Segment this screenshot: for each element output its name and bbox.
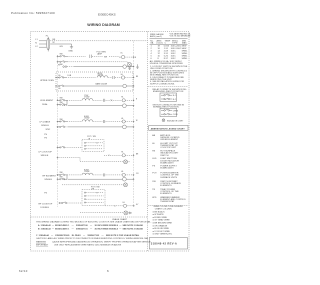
label RF element bbox=[43, 176, 57, 182]
svg-text:2. WIRING SHOWN WITH CONTROLSI: 2. WIRING SHOWN WITH CONTROLSIN OFF POSI… bbox=[150, 70, 187, 76]
svg-text:WIRING DIAGRAM: WIRING DIAGRAM bbox=[87, 23, 120, 27]
svg-text:A 318048-42 — EI30EC45KS 1: A 318048-42 — EI30EC45KS 1 — 5995627100 … bbox=[38, 224, 143, 227]
notes model list row C bbox=[36, 234, 140, 237]
svg-text:USAGE CHART: USAGE CHART bbox=[112, 218, 128, 221]
svg-text:USE ONLY REPLACEMENT WIRE RATE: USE ONLY REPLACEMENT WIRE RATED 105C MIN… bbox=[54, 243, 122, 246]
convection fan row symbols bbox=[58, 64, 74, 67]
wire right bus bbox=[133, 41, 135, 207]
svg-text:HL: HL bbox=[152, 143, 156, 145]
svg-text:R: R bbox=[136, 99, 138, 101]
notes heading bbox=[112, 218, 128, 221]
node LF lower feed bbox=[57, 157, 58, 158]
node RF cooktop bus bbox=[133, 205, 134, 206]
upper oven enclosure bbox=[56, 72, 134, 91]
node row C branch bus bbox=[133, 126, 134, 127]
svg-text:LF COOKTOPSINGLE: LF COOKTOPSINGLE bbox=[39, 151, 53, 156]
broil element coil bbox=[68, 73, 122, 79]
diagram border bbox=[31, 32, 190, 252]
node row B bottom bbox=[57, 104, 58, 105]
LF cooktop hi-limit TH4 bbox=[121, 152, 133, 157]
node bake bus bbox=[133, 85, 134, 86]
svg-text:LF & BAKESINGLE: LF & BAKESINGLE bbox=[40, 120, 51, 127]
relay contact symbol note bbox=[153, 88, 187, 93]
label LF and bake bbox=[40, 120, 51, 127]
svg-text:HI-LIMIT CUTOUTTHERMOSTAT OFCO: HI-LIMIT CUTOUTTHERMOSTAT OFCOOKTOP UNIT bbox=[160, 143, 178, 149]
svg-text:HL: HL bbox=[121, 118, 123, 120]
LR switch contacts bbox=[58, 98, 68, 106]
door switch S2 bbox=[58, 61, 68, 66]
svg-text:SW: SW bbox=[60, 54, 63, 56]
svg-text:N: N bbox=[135, 57, 137, 59]
wire left bus bbox=[57, 56, 59, 207]
node row A top bbox=[57, 56, 58, 57]
svg-text:SW: SW bbox=[60, 98, 63, 100]
svg-text:SWITCH ROTARYCONTROL SURFACEEL: SWITCH ROTARYCONTROL SURFACEELEMENTS bbox=[160, 180, 181, 187]
svg-text:CAUSE IMPROPER AND DANGEROUS O: CAUSE IMPROPER AND DANGEROUS OPERATION. … bbox=[52, 240, 151, 243]
svg-text:AB: AB bbox=[152, 134, 155, 137]
svg-text:HL: HL bbox=[121, 171, 123, 173]
svg-text:PS: PS bbox=[44, 192, 47, 194]
svg-text:BK: BK bbox=[136, 76, 139, 78]
svg-text:BK: BK bbox=[53, 39, 56, 41]
svg-text:HL: HL bbox=[123, 202, 125, 204]
svg-text:6: 6 bbox=[107, 269, 109, 273]
svg-text:OL: OL bbox=[120, 53, 123, 55]
svg-text:TRIAC POWERCONTROL OF THEELEME: TRIAC POWERCONTROL OF THEELEMENTS bbox=[160, 188, 179, 195]
chassis ground G3 bbox=[128, 212, 131, 215]
svg-text:WARNING: WARNING bbox=[36, 240, 46, 243]
RF element coil bbox=[67, 170, 122, 177]
svg-text:IMPORTANT: IMPORTANT bbox=[36, 243, 49, 246]
wire row D branch bbox=[62, 178, 123, 180]
svg-text:SW: SW bbox=[60, 119, 63, 121]
wire pot RF output bbox=[105, 205, 123, 206]
svg-text:ELEM1300W: ELEM1300W bbox=[84, 116, 90, 120]
svg-text:POWER SUPPLYBOARD ASSY: POWER SUPPLYBOARD ASSY bbox=[160, 166, 177, 170]
legend separator dashed bbox=[148, 86, 188, 88]
LF feed contacts bbox=[58, 146, 83, 148]
svg-text:W: W bbox=[53, 42, 55, 44]
node row C bus bbox=[133, 121, 134, 122]
svg-text:OPEN: OPEN bbox=[173, 110, 179, 112]
LF element coil bbox=[67, 116, 122, 123]
wire gauge table header bbox=[150, 33, 192, 39]
svg-text:P1: P1 bbox=[46, 35, 48, 37]
svg-text:318048-42 REV-A: 318048-42 REV-A bbox=[151, 241, 177, 245]
svg-text:AWG(mm2): AWG(mm2) bbox=[157, 39, 163, 44]
node row D top bbox=[57, 174, 58, 175]
svg-text:LR ELEMENTDUAL: LR ELEMENTDUAL bbox=[40, 100, 54, 106]
wire row B branch bbox=[62, 105, 123, 107]
svg-text:HOT SURFACEINDICATOR LIGHTSWIT: HOT SURFACEINDICATOR LIGHTSWITCH bbox=[160, 150, 179, 157]
abbreviation list bbox=[152, 134, 186, 203]
svg-text:POTENTIOMETERCONTROL OF THESUR: POTENTIOMETERCONTROL OF THESURFACE UNITS bbox=[160, 173, 179, 179]
oven light OL1 bbox=[119, 53, 137, 60]
svg-text:POT: POT bbox=[152, 173, 157, 175]
connector P12 J12 bbox=[90, 52, 119, 59]
svg-text:GY: GY bbox=[136, 204, 139, 206]
wire gauge table column headings bbox=[150, 39, 188, 45]
node row D bottom bbox=[57, 179, 58, 180]
wire L1 bus bbox=[50, 40, 147, 42]
switch symbol note bbox=[153, 103, 185, 108]
svg-text:BAKE 2500W: BAKE 2500W bbox=[96, 82, 108, 85]
hot surface indicator lamp DS3 bbox=[62, 183, 128, 187]
pot switch RF wipers bbox=[84, 192, 103, 203]
node row B top bbox=[57, 100, 58, 101]
svg-text:HL: HL bbox=[58, 88, 60, 90]
svg-text:THIS WIRING DIAGRAM COVERS TWO: THIS WIRING DIAGRAM COVERS TWO MODELS OF… bbox=[36, 221, 152, 224]
svg-text:1. LOCKOUT SWITCH SHOWN IN THE: 1. LOCKOUT SWITCH SHOWN IN THEUNLOCKED P… bbox=[150, 66, 188, 70]
abbreviation legend header box bbox=[149, 125, 188, 130]
node fan bus bbox=[133, 66, 134, 67]
svg-text:LIGHT EMITTINGDIODE INDICATORB: LIGHT EMITTINGDIODE INDICATORBOARD ASSY bbox=[160, 158, 179, 164]
wire color code list bbox=[153, 210, 173, 235]
notes caution paragraph bbox=[36, 237, 151, 246]
svg-text:INSULTYPE: INSULTYPE bbox=[172, 40, 179, 44]
svg-text:TR: TR bbox=[152, 189, 155, 191]
LR anti-boil sensor AB1 bbox=[123, 104, 134, 108]
svg-text:EI30EC45KS: EI30EC45KS bbox=[98, 12, 116, 16]
svg-text:ELEM1200W: ELEM1200W bbox=[84, 170, 90, 174]
svg-text:Publication No: 5995627100: Publication No: 5995627100 bbox=[11, 11, 55, 15]
legend column separator bbox=[147, 32, 149, 252]
svg-text:PSPS: PSPS bbox=[44, 134, 47, 139]
label LR element bbox=[40, 100, 54, 106]
svg-text:SW: SW bbox=[60, 172, 63, 174]
node row A bus bbox=[133, 57, 134, 58]
wire neutral run bbox=[50, 39, 71, 48]
svg-text:W: W bbox=[136, 120, 138, 122]
svg-text:LED: LED bbox=[152, 158, 157, 160]
hi-limit thermostat TH1 bbox=[121, 74, 134, 79]
notes model list bbox=[38, 224, 143, 231]
RF anti-boil sensor AB3 bbox=[123, 177, 134, 181]
wire color separator dashed bbox=[148, 204, 188, 206]
chassis ground G1 bbox=[68, 44, 73, 52]
svg-text:N.O.: N.O. bbox=[173, 95, 177, 97]
label LF cooktop bbox=[39, 151, 53, 156]
label pot sw LF bbox=[87, 136, 96, 140]
node row D branch bus bbox=[133, 179, 134, 180]
svg-text:0.8231.312.083.315.268.37: 0.8231.312.083.315.268.37 bbox=[164, 46, 170, 61]
power supply leads L1 N L2 bbox=[35, 39, 46, 48]
notes separator bbox=[31, 216, 148, 218]
node row B branch bus bbox=[133, 105, 134, 106]
svg-text:RELAY CONTACTS SHOWN IN DE-ENE: RELAY CONTACTS SHOWN IN DE-ENERGIZED (RE… bbox=[153, 88, 187, 93]
chassis ground G2 bbox=[128, 67, 131, 70]
svg-text:P12 OVENLAMP: P12 OVENLAMP bbox=[97, 52, 107, 56]
title WIRING DIAGRAM bbox=[87, 23, 120, 27]
svg-text:1700/2700W: 1700/2700W bbox=[84, 95, 90, 99]
svg-text:B 318048-43 — EI36EC45KS 1: B 318048-43 — EI36EC45KS 1 — 5995627101 … bbox=[38, 228, 143, 231]
svg-text:123456: 123456 bbox=[151, 46, 153, 61]
svg-text:W/D: W/D bbox=[152, 197, 157, 199]
svg-text:ABBREVIATION LEGEND CHART: ABBREVIATION LEGEND CHART bbox=[151, 128, 186, 131]
node row B bus bbox=[133, 100, 134, 101]
svg-text:SP02: SP02 bbox=[46, 129, 51, 131]
indicator lamp DS1 bbox=[128, 63, 132, 67]
label PS upper bbox=[44, 134, 47, 139]
bake element motor M2 bbox=[66, 82, 134, 87]
wire color code heading bbox=[154, 206, 184, 210]
svg-text:INDICATOR LIGHT: INDICATOR LIGHT bbox=[167, 119, 184, 122]
svg-text:HL: HL bbox=[121, 152, 123, 154]
svg-text:L2: L2 bbox=[35, 46, 38, 48]
footer date code bbox=[19, 269, 28, 273]
RF feed contacts bbox=[60, 202, 83, 204]
chassis ground G4 bbox=[136, 64, 139, 68]
LF hi-limit TH3 bbox=[121, 118, 133, 123]
RF switch contacts bbox=[58, 172, 68, 180]
svg-text:CLSD: CLSD bbox=[173, 114, 179, 116]
svg-text:HS: HS bbox=[152, 151, 156, 153]
svg-text:L1: L1 bbox=[35, 39, 38, 41]
label SP02 bbox=[46, 129, 51, 131]
bake switch S4 bbox=[57, 85, 67, 90]
potentiometer switch enclosure LF bbox=[82, 140, 104, 152]
svg-text:HL: HL bbox=[58, 75, 60, 77]
node LF cooktop bus bbox=[133, 155, 134, 156]
wire LF lower feed bbox=[58, 158, 81, 162]
svg-text:BR: BR bbox=[136, 154, 139, 156]
svg-text:18161412108: 18161412108 bbox=[158, 46, 161, 61]
svg-text:SEWSEWSRMLSRMLSRMLSRML: SEWSEWSRMLSRMLSRMLSRML bbox=[182, 46, 189, 61]
pot switch LF wipers bbox=[84, 142, 102, 149]
LF anti-boil sensor AB2 bbox=[123, 125, 134, 129]
svg-text:SW: SW bbox=[152, 181, 155, 183]
label upper oven bbox=[40, 80, 54, 82]
node row A bottom bbox=[57, 61, 58, 62]
LR element coil bbox=[67, 95, 122, 102]
svg-text:P2: P2 bbox=[58, 64, 60, 66]
LF switch contacts bbox=[58, 119, 68, 122]
svg-text:UPPER OVEN: UPPER OVEN bbox=[40, 80, 54, 82]
svg-text:● BK BLACK● W WHITE● R RED: ● BK BLACK● W WHITE● R RED WIRE● GY GRAY… bbox=[153, 210, 173, 235]
wire row C branch bbox=[58, 126, 123, 128]
header model number bbox=[98, 12, 116, 16]
svg-text:3. DISCONNECT POWER BEFORESERV: 3. DISCONNECT POWER BEFORESERVICING THE … bbox=[150, 77, 184, 81]
svg-text:OR: OR bbox=[136, 173, 139, 175]
svg-text:WIRE GAUGEAWG (mm2): WIRE GAUGEAWG (mm2) bbox=[150, 33, 164, 38]
RF cooktop hi-limit TH6 bbox=[123, 202, 134, 207]
wire row A branch bbox=[68, 62, 129, 63]
svg-text:TEMPC: TEMPC bbox=[165, 40, 171, 44]
svg-text:PS: PS bbox=[152, 166, 155, 168]
svg-text:POT / SWRF: POT / SWRF bbox=[91, 186, 100, 190]
node broil bus bbox=[133, 77, 134, 78]
svg-text:WIRE COLOR CODE LEGENDCHART CO: WIRE COLOR CODE LEGENDCHART COLUMN bbox=[154, 206, 184, 210]
svg-text:No.GA: No.GA bbox=[150, 40, 154, 44]
revision number box bbox=[149, 238, 187, 249]
svg-text:N.C.: N.C. bbox=[173, 99, 177, 101]
label PS lower bbox=[44, 192, 47, 194]
svg-text:62/10: 62/10 bbox=[19, 269, 28, 273]
footer page number bbox=[107, 269, 109, 273]
convection fan motor M1 bbox=[74, 65, 134, 69]
wire pot LF output bbox=[104, 155, 122, 156]
svg-text:DLB: DLB bbox=[68, 75, 72, 77]
svg-text:105C-200C105C-200C105C105C105C: 105C-200C105C-200C105C105C105C105C bbox=[171, 46, 182, 61]
RF hi-limit TH5 bbox=[121, 171, 133, 176]
svg-text:SWITCH CONTACTS SHOWN INNORMAL: SWITCH CONTACTS SHOWN INNORMAL REST POSI… bbox=[153, 103, 185, 108]
switch symbol figure bbox=[160, 108, 179, 116]
label RF cooktop bbox=[39, 204, 53, 209]
svg-text:WARMER DRAWERELEMENT AND CONTR: WARMER DRAWERELEMENT AND CONTROLTHERMOST… bbox=[160, 196, 186, 203]
header publication number bbox=[11, 11, 55, 15]
svg-text:RF ELEMENTSINGLE: RF ELEMENTSINGLE bbox=[43, 176, 57, 182]
legend notes paragraphs bbox=[150, 66, 188, 85]
node row D bus bbox=[133, 174, 134, 175]
svg-text:HL: HL bbox=[121, 97, 123, 99]
svg-text:GN: GN bbox=[60, 46, 64, 48]
svg-text:ALL WIRING 18 GA. 105C SEW-2UN: ALL WIRING 18 GA. 105C SEW-2UNLESS OTHER… bbox=[150, 60, 184, 65]
label pot sw RF bbox=[91, 186, 100, 190]
indicator light symbol bbox=[162, 119, 184, 123]
svg-text:MINMAX: MINMAX bbox=[182, 40, 187, 44]
wire color labels right bbox=[136, 76, 139, 206]
svg-text:N: N bbox=[35, 43, 37, 45]
svg-text:GND: GND bbox=[68, 50, 73, 52]
svg-text:CAUTION: LABEL ALL WIRES PRIOR: CAUTION: LABEL ALL WIRES PRIOR TO DISCON… bbox=[36, 237, 149, 240]
LR hi-limit TH2 bbox=[121, 97, 133, 102]
wire row A rail bbox=[68, 55, 86, 57]
notes line 1 bbox=[36, 221, 152, 224]
svg-text:ANTI-BOILSENSOR LOCATEDUNDER E: ANTI-BOILSENSOR LOCATEDUNDER ELEMENT bbox=[160, 134, 180, 141]
potentiometer switch enclosure RF bbox=[82, 190, 105, 206]
wire gauge table rows bbox=[150, 46, 188, 66]
terminal block P1 bbox=[46, 35, 50, 51]
node row C top bbox=[57, 121, 58, 122]
node RF feed bbox=[59, 202, 60, 203]
svg-text:C 318048-44 — EW30EC55G: C 318048-44 — EW30EC55GS EL PASO — 59956… bbox=[36, 234, 140, 237]
node row C bottom bbox=[57, 126, 58, 127]
node LF feed bbox=[57, 147, 58, 148]
hot surface indicator lamp DS4 bbox=[80, 211, 128, 215]
door switch S1 bbox=[58, 54, 68, 57]
oven selector switch S3 bbox=[57, 75, 96, 78]
svg-text:VOLTAGE RATING ULVOLTS 300 MIN: VOLTAGE RATING ULVOLTS 300 MINIMUM bbox=[170, 33, 192, 38]
hot surface indicator lamp DS2 bbox=[80, 160, 130, 164]
relay symbol figure bbox=[160, 93, 177, 101]
svg-text:WH: WH bbox=[104, 56, 108, 58]
svg-text:RF COOKTOPDOUBLE: RF COOKTOPDOUBLE bbox=[39, 204, 53, 209]
